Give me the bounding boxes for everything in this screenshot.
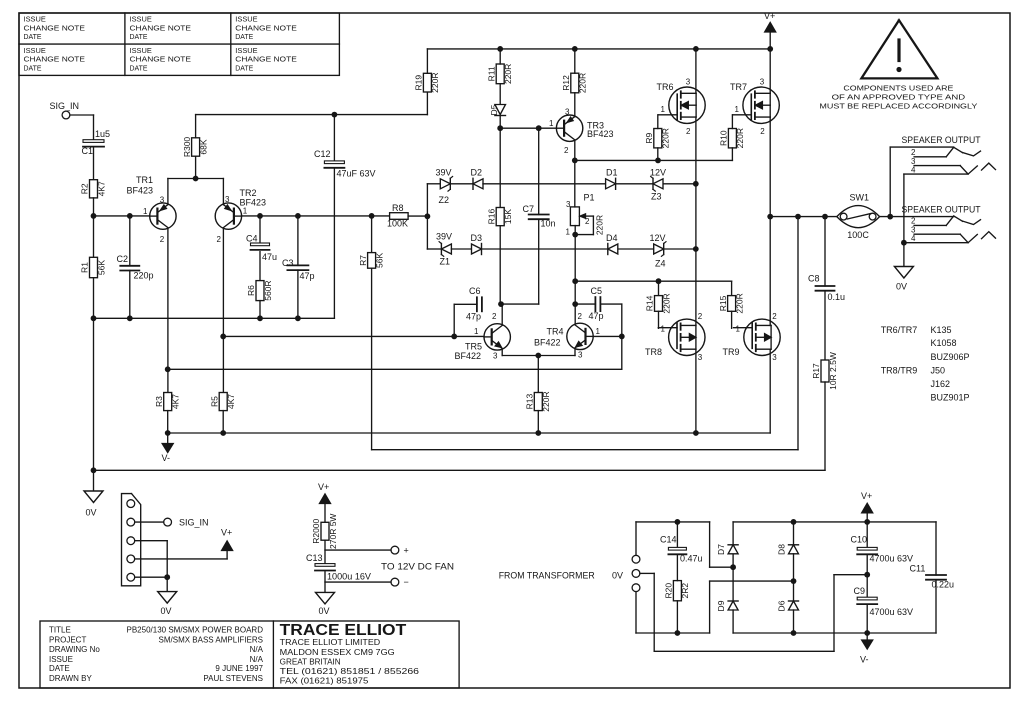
wire TR8 gate from R14 [658,311,660,328]
svg-text:1000u 16V: 1000u 16V [327,572,371,582]
wire TR6 source to TR8 drain column [695,117,697,325]
power symbol V- (below R3) [162,433,174,463]
svg-text:FROM TRANSFORMER: FROM TRANSFORMER [499,571,595,581]
resistor R15 220R [718,293,745,313]
resistor R3 4K7 [154,393,181,411]
svg-text:Z4: Z4 [655,258,666,268]
svg-text:2: 2 [492,312,497,321]
svg-text:R13: R13 [525,393,535,409]
svg-text:R12: R12 [561,75,571,91]
diode D7 [716,522,738,567]
svg-text:ISSUE: ISSUE [235,17,258,24]
svg-text:DATE: DATE [235,66,253,73]
wire secondary1 to bridge AC1 [636,519,736,570]
resistor R5 4K7 [209,393,236,411]
wire SW1 to speaker jacks [880,147,954,219]
svg-text:10R 2.5W: 10R 2.5W [828,352,838,390]
svg-text:220R: 220R [735,128,745,148]
wire R11 to D5 [499,84,501,105]
capacitor C2 220p [117,254,154,281]
svg-text:BUZ901P: BUZ901P [931,393,970,403]
svg-text:C8: C8 [808,274,820,284]
wire TR6 drain to V+ rail [695,49,697,93]
svg-text:TR6: TR6 [657,82,674,92]
terminal SIG_IN (header) [135,518,209,528]
svg-text:220R: 220R [661,128,671,148]
svg-text:V+: V+ [221,528,232,538]
svg-text:0V: 0V [161,606,172,616]
svg-text:56K: 56K [96,260,106,275]
resistor R10 220R [719,128,746,148]
wire R12 [574,49,576,117]
diode D4 [606,233,618,254]
svg-text:3: 3 [698,353,703,362]
svg-text:PROJECT: PROJECT [49,635,86,644]
wire TR1/TR2 collectors to R300 bottom (y=178.5 bus) [168,156,224,204]
svg-text:4K7: 4K7 [171,394,181,409]
svg-text:3: 3 [578,351,583,360]
wire TR7 gate to R10 [731,115,733,161]
wire R1/C2 to ground bus y=318 [91,271,335,322]
wire TR5/TR4 emitters to R13 [502,349,575,393]
node input bus: R2/R1/C2/TR1 base [91,213,150,266]
svg-text:2: 2 [585,217,590,226]
svg-text:CHANGE NOTE: CHANGE NOTE [235,25,297,32]
title block [40,621,459,688]
svg-text:TR4: TR4 [547,327,564,337]
resistor R6 560R [246,280,273,300]
svg-text:TR9: TR9 [723,347,740,357]
svg-text:V+: V+ [764,11,775,21]
svg-text:R11: R11 [486,66,496,81]
transistor TR4 BF422 [534,312,601,360]
svg-text:3: 3 [686,78,691,87]
wire TR5 base line from TR2 emitter [220,334,484,340]
wire TR9 source to V- rail [769,349,771,433]
connector speaker output jack 1 [902,135,996,174]
svg-text:D4: D4 [606,233,618,243]
zener Z4 12V [650,233,667,268]
svg-text:V+: V+ [318,482,329,492]
svg-text:2: 2 [698,312,703,321]
wire R8 to zener branch node [408,184,430,249]
resistor R16 15K [486,208,513,226]
svg-text:N/A: N/A [250,655,264,664]
svg-text:1: 1 [243,206,248,215]
transistor TR2 BF423 [215,188,266,244]
wire feedback line TR1 emitter to TR4 base [168,336,622,369]
wire TR7 source to TR9 drain column (output) [767,117,773,325]
svg-text:9 JUNE 1997: 9 JUNE 1997 [215,664,263,673]
svg-text:TR2: TR2 [240,188,257,198]
svg-text:4K7: 4K7 [226,394,236,409]
wire C1 to R2 [93,148,95,180]
svg-text:V-: V- [162,453,171,463]
svg-text:15K: 15K [503,209,513,224]
diode D2 [451,168,483,190]
zener Z3 12V [650,168,666,202]
connector input header [122,494,141,586]
wire header pin3 and pin5 to 0V [135,541,170,592]
wire R7 bottom to feedback rail y=449.7 [372,217,798,450]
wire TR2 emitter column [222,229,224,393]
wire SIG_IN to C1 [70,114,94,116]
power symbol V+ (top rail) [764,11,776,49]
svg-text:R16: R16 [486,209,496,225]
wire centre tap to C10/C9 midpoint [640,572,870,652]
svg-text:R7: R7 [358,255,368,266]
resistor R300 68K [182,137,209,158]
wire C13 to - terminal and 0V [325,572,391,593]
svg-text:C9: C9 [854,586,866,596]
svg-text:2: 2 [911,148,916,157]
wire C8 to R17 [824,291,826,360]
svg-text:220R: 220R [595,215,605,235]
svg-text:10n: 10n [541,219,556,229]
capacitor C13 1000u 16V [306,553,371,582]
svg-text:N/A: N/A [250,645,264,654]
svg-text:1: 1 [596,327,601,336]
svg-text:DRAWN BY: DRAWN BY [49,674,92,683]
diode D6 [777,581,799,633]
diode D5 [489,104,506,115]
svg-text:39V: 39V [436,232,452,242]
svg-text:0V: 0V [319,606,330,616]
svg-text:SPEAKER OUTPUT: SPEAKER OUTPUT [902,135,981,145]
svg-text:TRACE ELLIOT LIMITED: TRACE ELLIOT LIMITED [280,638,381,647]
wire TR1 emitter column [165,229,171,393]
svg-text:39V: 39V [436,168,452,178]
wire TR5 collector to node [500,226,502,325]
svg-text:ISSUE: ISSUE [24,17,47,24]
svg-text:D8: D8 [777,544,787,555]
svg-text:C14: C14 [660,534,677,544]
svg-text:220p: 220p [134,271,154,281]
zener Z1 39V [427,232,452,267]
resistor R11 220R [486,64,513,84]
svg-text:0.1u: 0.1u [828,292,846,302]
wire C4 to R6 [259,252,261,281]
svg-text:2: 2 [911,217,916,226]
power symbol V- (supply) [860,633,873,665]
svg-text:R14: R14 [645,295,655,311]
svg-text:DATE: DATE [24,66,42,73]
svg-text:MALDON ESSEX CM9 7GG: MALDON ESSEX CM9 7GG [280,648,395,657]
diode D9 [716,567,738,633]
svg-text:68K: 68K [198,139,208,154]
wire output rail y=216.6 [770,214,837,220]
svg-text:12V: 12V [650,168,666,178]
svg-text:2: 2 [217,235,222,244]
svg-text:R3: R3 [154,396,164,407]
wire TR7 drain to V+ rail [769,49,771,93]
svg-text:ISSUE: ISSUE [49,655,73,664]
capacitor C1 1u5 [82,129,111,156]
capacitor C4 47u [246,216,277,262]
svg-text:1: 1 [474,327,479,336]
svg-text:R2: R2 [80,183,90,194]
svg-text:220R: 220R [430,72,440,92]
wire C10 to midpoint [866,556,868,598]
resistor R1 56K [80,257,107,277]
svg-text:D2: D2 [471,168,483,178]
svg-text:100K: 100K [387,218,408,228]
svg-text:C4: C4 [246,234,258,244]
wire R16 bottom to node [498,301,504,307]
ground symbol 0V (input) [84,491,103,517]
svg-text:1: 1 [736,325,741,334]
diode D8 [777,522,799,581]
wire C9 bottom to V- rail [733,605,936,635]
diode D3 [451,233,482,254]
svg-text:C10: C10 [851,534,868,544]
wire R11 top [499,49,501,64]
thermal switch SW1 100C [837,192,880,240]
wire C7 bottom to TR5 collector node [501,219,539,304]
connector speaker output jack 2 [902,205,996,243]
capacitor C6 47p [454,286,482,337]
transistor TR1 BF423 [127,175,177,244]
wire R2000 to C13 / + terminal [325,540,391,563]
resistor R2000 270R 5W [311,514,338,549]
svg-text:220R: 220R [541,391,551,411]
svg-text:C1: C1 [82,146,94,156]
svg-text:1: 1 [549,119,554,128]
capacitor C7 10n [523,204,556,229]
svg-text:CHANGE NOTE: CHANGE NOTE [130,57,192,64]
svg-text:SW1: SW1 [850,192,870,202]
terminal fan + [391,546,409,556]
capacitor C5 47p [575,286,603,321]
svg-text:BF423: BF423 [587,129,614,139]
svg-text:R6: R6 [246,285,256,296]
svg-text:Z2: Z2 [439,195,450,205]
resistor R7 56K [358,253,385,269]
wire gate rail y=281.2 (R14/R15 tops) [575,278,731,295]
svg-text:P1: P1 [584,193,595,203]
svg-text:COMPONENTS USED ARE: COMPONENTS USED ARE [843,84,953,93]
capacitor C12 47uF 63V [314,149,376,179]
svg-text:C7: C7 [523,204,535,214]
resistor R20 2R2 [664,581,691,601]
svg-text:R10: R10 [719,130,729,146]
diode D1 [606,168,618,190]
svg-text:3: 3 [772,353,777,362]
zener Z2 39V [427,168,452,206]
svg-text:R9: R9 [644,132,654,143]
resistor R2 4K7 [80,180,107,198]
note transistor types [881,325,970,403]
wire clamp row bottom [482,246,699,252]
svg-text:K1058: K1058 [931,338,957,348]
svg-text:V-: V- [860,655,869,665]
transistor TR7 (MOSFET) [730,78,779,137]
svg-text:DATE: DATE [235,34,253,41]
svg-text:0V: 0V [896,282,907,292]
ground symbol 0V (header) [158,592,177,616]
svg-text:C12: C12 [314,149,331,159]
wire +DC rail (bridge top) [733,519,936,575]
svg-text:TR6/TR7: TR6/TR7 [881,325,918,335]
svg-text:560R: 560R [263,280,273,300]
svg-text:Z3: Z3 [651,191,662,201]
transistor TR8 (MOSFET) [645,312,705,362]
resistor R19 220R [414,72,441,92]
resistor R13 220R [525,391,552,411]
svg-text:270R 5W: 270R 5W [328,514,338,549]
svg-text:R15: R15 [718,295,728,311]
svg-text:DATE: DATE [130,66,148,73]
svg-text:BUZ906P: BUZ906P [931,352,970,362]
svg-text:CHANGE NOTE: CHANGE NOTE [24,25,86,32]
svg-text:4K7: 4K7 [96,181,106,196]
svg-text:PB250/130 SM/SMX POWER BOARD: PB250/130 SM/SMX POWER BOARD [127,625,264,634]
svg-text:1: 1 [566,228,571,237]
warning triangle note [819,20,977,110]
svg-text:V+: V+ [861,491,872,501]
svg-text:2: 2 [686,127,691,136]
resistor R9 220R [644,128,671,148]
svg-text:SIG_IN: SIG_IN [179,518,209,528]
svg-text:3: 3 [493,352,498,361]
wire C12 bottom to ground bus [333,169,335,318]
svg-text:47p: 47p [300,271,315,281]
svg-text:FAX (01621) 851975: FAX (01621) 851975 [280,677,369,686]
svg-text:TR8/TR9: TR8/TR9 [881,365,918,375]
svg-text:TRACE ELLIOT: TRACE ELLIOT [280,622,407,639]
svg-text:D6: D6 [777,600,787,611]
svg-text:SIG_IN: SIG_IN [50,101,80,111]
svg-text:C3: C3 [282,258,294,268]
resistor R17 10R 2.5W [811,352,838,390]
wire D5 to TR3 base row / R16 column [497,116,556,215]
svg-text:C6: C6 [469,286,481,296]
svg-text:R20: R20 [664,583,674,599]
svg-text:ISSUE: ISSUE [130,17,153,24]
wire TR9 gate from R15 [731,311,733,328]
transistor TR6 (MOSFET) [657,78,706,137]
terminal fan - [391,577,409,587]
svg-text:3: 3 [760,78,765,87]
capacitor C11 0.22u [910,564,955,590]
svg-text:BF422: BF422 [455,351,482,361]
svg-text:ISSUE: ISSUE [24,48,47,55]
svg-text:−: − [404,577,409,587]
svg-text:100C: 100C [847,230,869,240]
svg-text:1: 1 [661,105,666,114]
svg-text:CHANGE NOTE: CHANGE NOTE [24,57,86,64]
ground symbol 0V (fan) [316,592,335,616]
wire TR2 base bus to R8 [242,213,390,219]
svg-text:220R: 220R [503,64,513,84]
power symbol V+ (fan) [318,482,331,522]
svg-text:TR1: TR1 [136,175,153,185]
power symbol V+ (header pin4) [135,528,233,559]
svg-text:0V: 0V [86,507,97,517]
svg-text:220R: 220R [734,293,744,313]
svg-text:C5: C5 [591,286,603,296]
svg-text:0V: 0V [612,571,623,581]
wire R300 top / C12 / R19 bottom (y=114.6) [196,92,428,161]
trimmer P1 220R [566,193,605,237]
issue/change-note table [19,13,339,75]
ground symbol 0V (speaker) [894,267,913,292]
svg-text:220R: 220R [578,73,588,93]
svg-text:MUST BE REPLACED ACCORDINGLY: MUST BE REPLACED ACCORDINGLY [819,102,977,111]
svg-text:56K: 56K [374,253,384,268]
svg-text:DATE: DATE [24,34,42,41]
svg-text:PAUL STEVENS: PAUL STEVENS [203,674,263,683]
svg-text:2: 2 [160,235,165,244]
wire C3 to ground bus [297,270,299,318]
svg-text:TITLE: TITLE [49,625,71,634]
svg-text:J50: J50 [931,365,946,375]
svg-text:DRAWING No: DRAWING No [49,645,100,654]
svg-text:D3: D3 [471,233,483,243]
svg-text:R2000: R2000 [311,518,321,543]
svg-text:4: 4 [911,234,916,243]
svg-text:SPEAKER OUTPUT: SPEAKER OUTPUT [902,205,981,215]
svg-text:0.47u: 0.47u [680,554,703,564]
terminal transformer secondary 2 [632,584,640,592]
svg-text:2: 2 [772,312,777,321]
svg-text:4700u 63V: 4700u 63V [870,554,914,564]
wire R17 bottom to ground rail y=470.3 [91,318,825,491]
svg-text:C2: C2 [117,254,129,264]
svg-text:SM/SMX BASS AMPLIFIERS: SM/SMX BASS AMPLIFIERS [159,635,263,644]
capacitor C10 4700u 63V [851,522,914,564]
terminal transformer centre tap 0V [612,570,640,581]
svg-text:ISSUE: ISSUE [130,48,153,55]
svg-text:D1: D1 [606,168,618,178]
svg-text:1: 1 [143,207,148,216]
svg-text:C13: C13 [306,553,323,563]
resistor R8 100K [387,203,408,228]
resistor R12 220R [561,73,588,93]
transistor TR9 (MOSFET) [723,312,781,362]
svg-text:R8: R8 [392,203,404,213]
svg-text:4: 4 [911,165,916,174]
svg-text:C11: C11 [910,564,926,574]
svg-text:1u5: 1u5 [95,129,110,139]
wire TR8 source to V- rail [695,349,697,433]
svg-text:4700u 63V: 4700u 63V [870,607,914,617]
svg-text:TR8: TR8 [645,347,662,357]
capacitor C14 0.47u [660,522,703,564]
svg-text:R19: R19 [414,75,424,91]
svg-text:47u: 47u [262,252,277,262]
capacitor C9 4700u 63V [854,586,914,617]
svg-text:DATE: DATE [49,664,70,673]
svg-text:R17: R17 [811,363,821,379]
wire C5 right lead to TR4 base node [593,304,624,339]
wire TR6 gate to R9 [657,115,659,161]
svg-text:2R2: 2R2 [680,583,690,599]
capacitor C8 0.1u [808,217,845,302]
wire R2 to input node [93,198,95,216]
svg-text:J162: J162 [931,379,951,389]
svg-text:R300: R300 [182,137,192,158]
power symbol V+ (supply) [861,491,873,522]
svg-text:OF AN APPROVED TYPE AND: OF AN APPROVED TYPE AND [832,93,966,102]
svg-text:2: 2 [760,127,765,136]
svg-text:220R: 220R [661,293,671,313]
wire TR3 emitter column through P1 [572,160,578,323]
svg-text:12V: 12V [650,233,666,243]
terminal SIG_IN (input) [50,101,80,119]
terminal transformer secondary 1 [632,555,640,563]
svg-text:CHANGE NOTE: CHANGE NOTE [235,57,297,64]
